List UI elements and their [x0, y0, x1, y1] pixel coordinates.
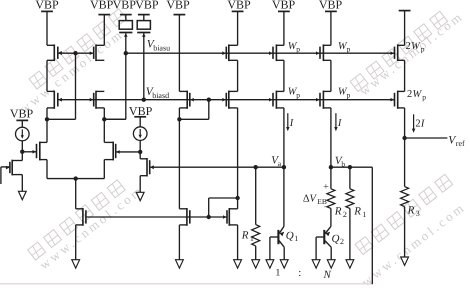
svg-text:N: N	[323, 269, 332, 281]
svg-text:p: p	[421, 45, 425, 54]
svg-text::: :	[298, 267, 301, 279]
svg-text:2: 2	[407, 89, 412, 100]
svg-text:W: W	[413, 89, 423, 100]
svg-text:Q: Q	[286, 230, 294, 242]
svg-text:R: R	[334, 206, 342, 218]
svg-text:VBP: VBP	[113, 0, 137, 11]
svg-text:b: b	[341, 159, 345, 168]
svg-text:2: 2	[406, 41, 411, 52]
svg-text:I: I	[337, 118, 342, 129]
svg-text:biasd: biasd	[152, 91, 169, 100]
svg-text:VBP: VBP	[90, 0, 114, 11]
svg-text:I: I	[420, 118, 425, 129]
svg-text:p: p	[347, 45, 351, 54]
svg-text:EB: EB	[317, 197, 327, 206]
svg-text:R: R	[353, 206, 361, 218]
svg-text:1: 1	[250, 234, 254, 243]
svg-text:p: p	[347, 90, 351, 99]
svg-text:ref: ref	[456, 139, 465, 148]
svg-text:2: 2	[343, 210, 347, 219]
svg-text:I: I	[289, 118, 294, 129]
svg-text:1: 1	[362, 210, 366, 219]
svg-text:1: 1	[275, 268, 280, 279]
svg-text:VBP: VBP	[35, 0, 59, 11]
svg-text:R: R	[241, 230, 249, 242]
svg-text:biasu: biasu	[153, 43, 170, 52]
svg-text:VBP: VBP	[319, 0, 343, 11]
svg-text:W: W	[411, 41, 421, 52]
svg-text:Q: Q	[332, 233, 340, 245]
svg-text:VBP: VBP	[10, 107, 34, 121]
svg-text:p: p	[296, 45, 300, 54]
svg-text:p: p	[422, 93, 426, 102]
svg-text:VBP: VBP	[135, 0, 159, 11]
svg-text:3: 3	[416, 209, 420, 218]
svg-text:+: +	[323, 183, 328, 193]
svg-text:2: 2	[415, 118, 420, 129]
svg-text:1: 1	[294, 234, 298, 243]
svg-text:VBP: VBP	[129, 104, 153, 118]
svg-text:p: p	[296, 90, 300, 99]
svg-text:VBP: VBP	[272, 0, 296, 11]
svg-text:2: 2	[340, 237, 344, 246]
svg-text:VBP: VBP	[166, 0, 190, 11]
svg-text:VBP: VBP	[227, 0, 251, 11]
svg-text:R: R	[407, 204, 415, 216]
